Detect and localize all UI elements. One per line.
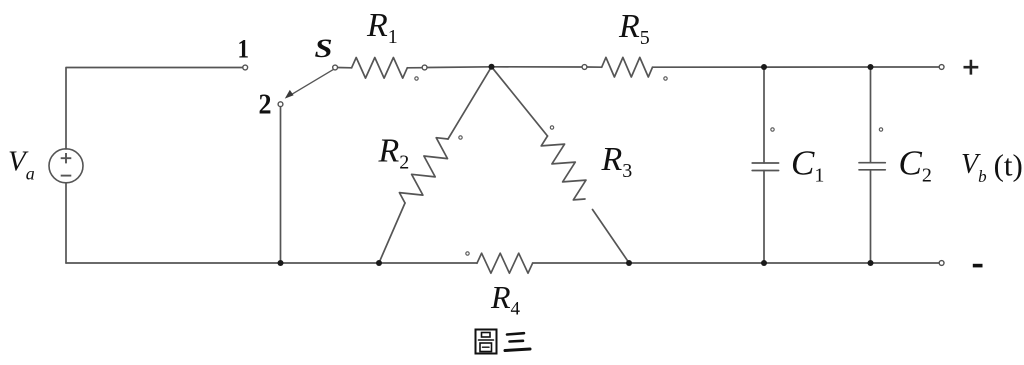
svg-text:R4: R4 — [490, 279, 521, 320]
wire R5 left lead — [587, 66, 602, 68]
svg-text:Va: Va — [8, 146, 35, 184]
switch arrowhead at terminal 2 — [285, 90, 294, 99]
caption 圖三 (Figure 3) — [476, 330, 531, 354]
junction C2 bottom — [868, 260, 874, 266]
wire R1 right lead — [407, 67, 422, 69]
svg-text:1: 1 — [238, 35, 250, 64]
junction R2 bottom — [376, 260, 382, 266]
terminal after R1 — [422, 65, 427, 70]
terminal before R5 — [582, 65, 587, 70]
junction R3 bottom — [626, 260, 632, 266]
wire R2 to bottom junction — [379, 203, 405, 263]
junction switch bottom — [278, 260, 284, 266]
output terminal + — [939, 65, 944, 70]
mark circle near R2 — [459, 136, 462, 139]
terminal S pivot circle — [333, 65, 338, 70]
svg-text:R2: R2 — [378, 133, 410, 174]
capacitor C2 bottom lead — [870, 170, 872, 263]
wire R1 terminal to node — [427, 66, 492, 69]
wire bottom rail right segment — [533, 262, 940, 264]
svg-text:R3: R3 — [601, 141, 633, 182]
capacitor C1 top lead — [763, 67, 765, 163]
三 strokes — [507, 333, 524, 334]
圖 middle bar — [479, 339, 494, 341]
capacitor C1 plates — [752, 163, 778, 171]
capacitor C2 top lead — [870, 67, 872, 163]
junction C2 top — [868, 64, 874, 70]
junction C1 bottom — [761, 260, 767, 266]
wire switch terminal 2 to bottom rail — [280, 107, 282, 264]
wire from Va top to terminal 1 — [66, 68, 243, 150]
wire S pivot to R1 — [337, 67, 351, 69]
node junction top center — [489, 64, 495, 70]
junction C1 top — [761, 64, 767, 70]
svg-text:2: 2 — [259, 90, 272, 121]
svg-text:Vb(t): Vb(t) — [961, 148, 1023, 187]
resistor R5 — [602, 57, 653, 77]
mark circle near R4 — [466, 252, 469, 255]
mark circle near C2 — [879, 128, 882, 131]
wire bottom rail left segment — [66, 262, 477, 264]
minus sign output — [973, 264, 983, 268]
capacitor C1 bottom lead — [763, 171, 765, 264]
svg-text:C1: C1 — [791, 144, 824, 187]
resistor R3 — [541, 136, 586, 200]
terminal 1 circle — [243, 65, 248, 70]
resistor R4 — [477, 253, 533, 273]
mark circle near C1 — [771, 128, 774, 131]
mark circle below R5 — [664, 77, 667, 80]
plus sign output — [964, 60, 979, 75]
voltage source Va — [49, 149, 83, 183]
svg-text:S: S — [315, 34, 333, 63]
output terminal - — [939, 261, 944, 266]
terminal 2 circle — [278, 102, 283, 107]
resistor R1 — [352, 58, 408, 79]
wire Va bottom lead — [65, 183, 67, 263]
svg-text:C2: C2 — [899, 144, 932, 187]
wire node to R3 — [492, 67, 548, 136]
圖 inner mouth — [482, 333, 491, 338]
capacitor C2 plates — [859, 163, 885, 170]
wire R3 to bottom junction — [593, 210, 630, 263]
圖 inner box — [480, 343, 492, 352]
wire R5 to right terminal — [653, 66, 940, 68]
wire node to R5 terminal — [492, 66, 583, 68]
圖 outer box — [476, 330, 497, 354]
mark circle below R1 — [415, 77, 418, 80]
mark circle near R3 — [550, 126, 553, 129]
switch S arm — [290, 70, 334, 96]
圖 inner dash — [483, 346, 490, 348]
svg-text:R1: R1 — [366, 7, 398, 48]
svg-text:R5: R5 — [618, 8, 650, 49]
resistor R2 — [399, 138, 448, 203]
wire node to R2 — [448, 67, 492, 139]
